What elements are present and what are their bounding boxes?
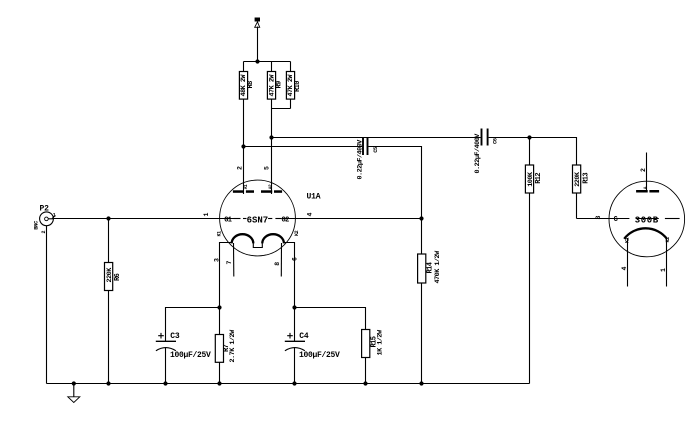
svg-text:1: 1 (53, 213, 56, 219)
node R7 bottom (217, 381, 221, 385)
capacitor C5 0.22uF/400V (356, 138, 379, 180)
svg-text:A1: A1 (243, 184, 249, 189)
svg-text:2: 2 (640, 168, 647, 172)
node plate2 to C5 junction (241, 144, 245, 148)
tube U1A 6SN7 envelope (220, 180, 296, 256)
cathode K1 arc (217, 231, 254, 244)
wire R13 to 300B grid (577, 218, 630, 220)
connector P2 BNC (33, 204, 56, 233)
svg-text:R12: R12 (535, 173, 543, 184)
resistor R10 47K 2W (272, 62, 302, 109)
svg-text:6SN7: 6SN7 (247, 215, 269, 225)
node cathode3 junction (217, 305, 221, 309)
ground symbol (68, 384, 80, 403)
svg-text:1: 1 (660, 268, 667, 272)
wire cathode pin 3 lead (220, 243, 232, 308)
filament arc 300B (624, 228, 667, 238)
resistor R15 1K 1/2W (362, 329, 385, 383)
wire plate 2 (243, 100, 245, 195)
resistor R12 100K (525, 138, 543, 384)
tube 300B envelope (609, 181, 685, 257)
anode plate bar 300B (636, 186, 659, 192)
svg-text:0.22µF/400V: 0.22µF/400V (356, 139, 364, 180)
svg-text:300B: 300B (635, 215, 659, 225)
wire heater pin 8 (280, 243, 282, 277)
wire ground bus (47, 383, 530, 385)
svg-text:1K 1/2W: 1K 1/2W (377, 329, 385, 355)
anode A1 plate bar (233, 184, 254, 193)
svg-text:470K 1/2W: 470K 1/2W (434, 250, 442, 284)
wire top bus to plate resistors (244, 61, 291, 63)
node R6 bottom (106, 381, 110, 385)
grid G1 dashes (224, 216, 246, 224)
svg-text:2.7K 1/2W: 2.7K 1/2W (229, 329, 237, 363)
svg-text:K2: K2 (294, 230, 300, 236)
svg-text:2: 2 (237, 166, 244, 170)
svg-text:R13: R13 (582, 173, 590, 184)
svg-text:BNC: BNC (33, 220, 40, 230)
node R6 top junction (106, 216, 110, 220)
svg-text:R9: R9 (275, 81, 283, 89)
svg-text:R6: R6 (114, 273, 122, 281)
wire jog to C3 (166, 308, 220, 342)
wire grid 4 (281, 218, 421, 220)
svg-text:C4: C4 (299, 332, 309, 341)
svg-text:0.22µF/400V: 0.22µF/400V (474, 133, 482, 174)
wire plate 5 (271, 100, 273, 195)
svg-text:8: 8 (274, 262, 281, 266)
svg-text:C3: C3 (170, 332, 180, 341)
wire BNC shell down (46, 226, 48, 384)
wire filament pin 4 (627, 238, 629, 287)
wire C5 to grid4 node (369, 147, 422, 219)
node ground stub (72, 381, 76, 385)
wire grid4 node down to R14 (421, 219, 423, 255)
wire plate2 to C5 (244, 146, 363, 148)
node plate5 to C6 junction (269, 135, 273, 139)
node R15 bottom (363, 381, 367, 385)
resistor R7 2.7K 1/2W (215, 308, 237, 384)
node R14 bottom (419, 381, 423, 385)
svg-text:7: 7 (226, 261, 233, 265)
svg-text:C6: C6 (491, 138, 498, 144)
resistor R14 470K 1/2W (418, 250, 443, 384)
svg-text:220K: 220K (106, 267, 114, 283)
svg-text:K1: K1 (217, 231, 223, 237)
svg-text:U1A: U1A (307, 193, 321, 202)
svg-text:3: 3 (214, 258, 221, 262)
node cathode6 junction (292, 305, 296, 309)
resistor R8 48K 2W (239, 62, 255, 100)
svg-text:4: 4 (621, 267, 628, 271)
svg-text:G1: G1 (224, 216, 232, 224)
svg-text:4: 4 (307, 213, 314, 217)
node R12 top junction (527, 135, 531, 139)
grid G label and dashes 300B (614, 216, 680, 224)
power supply symbol B+ (255, 18, 260, 62)
svg-text:100µF/25V: 100µF/25V (170, 351, 211, 360)
wire C6 to R13 corner (489, 137, 577, 139)
wire jog to R15 (295, 308, 366, 330)
svg-text:G2: G2 (282, 216, 290, 224)
node grid4 junction (419, 216, 423, 220)
svg-text:R8: R8 (247, 81, 255, 89)
wire cathode pin 6 lead (284, 243, 295, 308)
svg-text:100K: 100K (527, 171, 535, 187)
wire 300B plate up (646, 153, 648, 191)
capacitor C4 100uF/25V (285, 308, 340, 384)
anode A2 plate bar (261, 184, 282, 193)
svg-text:K2: K2 (665, 237, 671, 243)
wire heater pin 7 (233, 243, 235, 277)
svg-text:G: G (614, 216, 618, 224)
capacitor C3 100uF/25V (156, 332, 211, 383)
wire input to grid 1 (53, 218, 235, 220)
svg-text:A2: A2 (268, 184, 274, 189)
cathode K2 arc (262, 230, 300, 243)
cathode bridge wire (253, 243, 262, 248)
svg-text:6: 6 (292, 257, 299, 261)
node C3 bottom (163, 381, 167, 385)
svg-text:P2: P2 (40, 204, 50, 213)
svg-text:5: 5 (264, 166, 271, 170)
svg-text:220K: 220K (574, 171, 582, 187)
resistor R6 220K (105, 219, 123, 384)
wire plate5 to C6 (272, 137, 481, 139)
svg-text:100µF/25V: 100µF/25V (299, 351, 340, 360)
svg-text:3: 3 (595, 216, 602, 220)
resistor R9 47K 2W (267, 62, 283, 100)
node supply junction (255, 59, 259, 63)
resistor R13 220K (573, 137, 591, 219)
grid G2 dashes (268, 216, 289, 224)
capacitor C6 0.22uF/400V (474, 129, 498, 174)
node C4 bottom (292, 381, 296, 385)
svg-text:1: 1 (203, 213, 210, 217)
wire filament pin 1 (666, 238, 668, 287)
svg-text:R10: R10 (294, 81, 302, 92)
